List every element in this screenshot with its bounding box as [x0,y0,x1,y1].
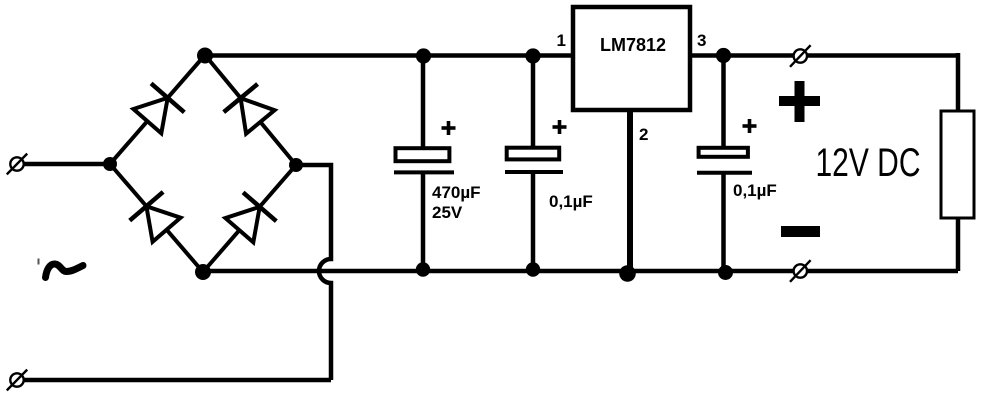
svg-text:25V: 25V [432,203,463,222]
svg-text:2: 2 [639,125,648,144]
svg-text:470µF: 470µF [432,183,481,202]
svg-text:3: 3 [697,31,706,50]
svg-text:0,1µF: 0,1µF [733,181,777,200]
svg-text:12V DC: 12V DC [816,141,921,185]
svg-text:0,1µF: 0,1µF [549,192,593,211]
svg-text:1: 1 [557,31,566,50]
svg-text:LM7812: LM7812 [600,35,666,55]
